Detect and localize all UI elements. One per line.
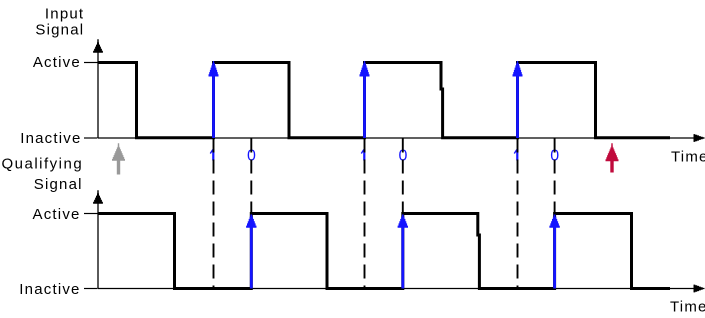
digit 1 pair1 bbox=[210, 149, 215, 160]
blue rising-edge arrow qualifying 1 (x=251) bbox=[246, 215, 256, 289]
blue rising-edge arrow input 1 (x=213) bbox=[209, 61, 219, 138]
qualifying signal waveform bbox=[98, 214, 670, 289]
digit 1 pair3 bbox=[514, 149, 519, 160]
input signal y-axis bbox=[93, 39, 103, 138]
svg-text:Inactive: Inactive bbox=[20, 130, 81, 147]
tick active (input) bbox=[84, 62, 98, 64]
qualifying signal y-axis bbox=[93, 190, 103, 288]
dashed line pair2 right (x=403) bbox=[402, 139, 404, 215]
dashed line pair1 left (x=213) bbox=[213, 139, 215, 290]
tick inactive (input) bbox=[84, 137, 98, 139]
svg-text:Active: Active bbox=[33, 206, 81, 223]
dashed line pair2 left (x=364) bbox=[364, 139, 366, 290]
tick active (qualifying) bbox=[84, 213, 98, 215]
svg-text:Time: Time bbox=[670, 299, 705, 316]
blue rising-edge arrow input 2 (x=364) bbox=[360, 61, 370, 138]
svg-text:Inactive: Inactive bbox=[19, 281, 80, 298]
digit 1 pair2 bbox=[361, 149, 366, 160]
qualifying signal time axis bbox=[98, 285, 705, 293]
dashed line pair3 right (x=555) bbox=[554, 139, 556, 215]
input signal time axis bbox=[98, 134, 705, 142]
svg-text:Time: Time bbox=[671, 148, 705, 165]
blue rising-edge arrow input 3 (x=517) bbox=[513, 61, 523, 138]
tick inactive (qualifying) bbox=[84, 288, 98, 290]
svg-text:Input: Input bbox=[45, 5, 84, 22]
dashed line pair1 right (x=251) bbox=[250, 139, 252, 215]
svg-text:Signal: Signal bbox=[34, 176, 83, 193]
dashed line pair3 left (x=517) bbox=[517, 139, 519, 290]
blue rising-edge arrow qualifying 3 (x=555) bbox=[549, 215, 559, 289]
svg-text:Qualifying: Qualifying bbox=[1, 156, 83, 173]
red arrow bbox=[606, 143, 619, 172]
svg-text:Active: Active bbox=[33, 54, 81, 71]
gray arrow bbox=[112, 143, 125, 174]
blue rising-edge arrow qualifying 2 (x=403) bbox=[398, 215, 408, 289]
input signal waveform bbox=[98, 63, 670, 138]
svg-text:Signal: Signal bbox=[35, 21, 84, 38]
